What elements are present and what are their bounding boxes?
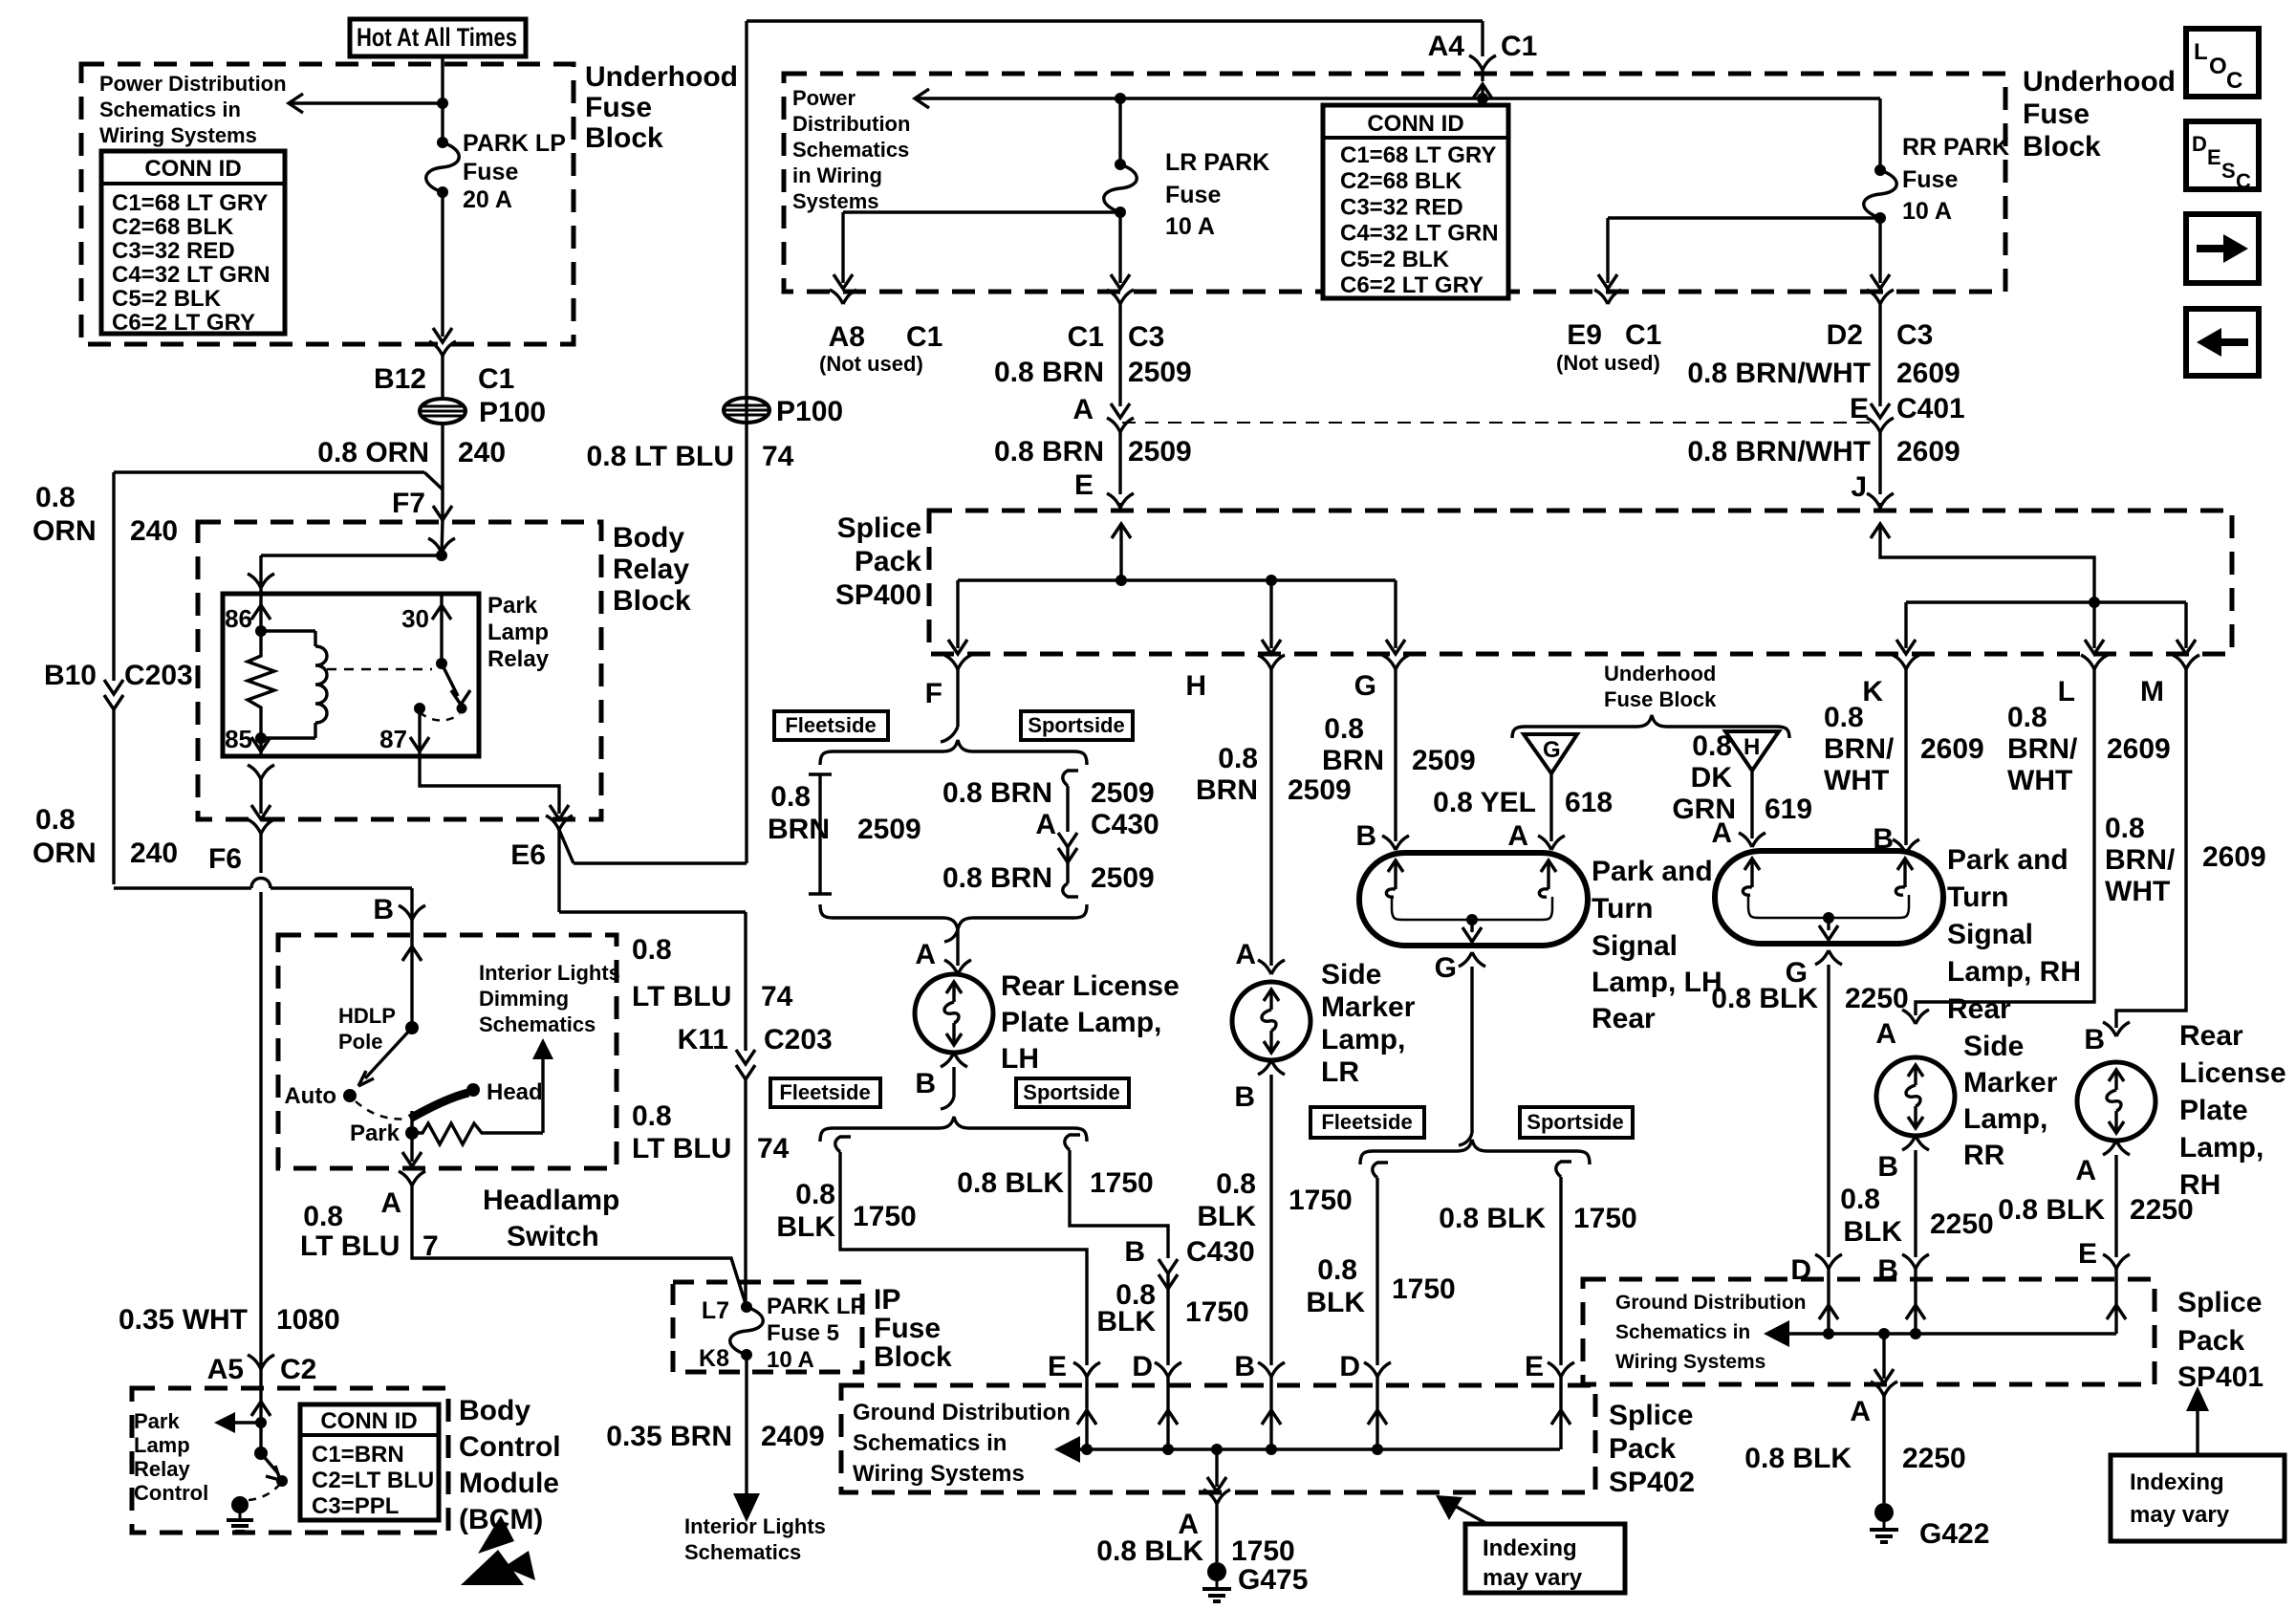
svg-text:Sportside: Sportside [1527, 1110, 1623, 1134]
svg-text:B: B [1124, 1236, 1145, 1268]
connector D into SP402 [1155, 1362, 1168, 1377]
svg-text:2609: 2609 [2107, 733, 2171, 765]
svg-text:G475: G475 [1238, 1564, 1308, 1596]
ground G422 [1874, 1503, 1894, 1522]
svg-text:A: A [1711, 817, 1732, 849]
connector G [1382, 655, 1396, 669]
svg-text:WHT: WHT [2007, 765, 2072, 796]
svg-text:Park and: Park and [1947, 844, 2069, 876]
svg-text:RR: RR [1963, 1140, 2005, 1171]
svg-text:C6=2 LT GRY: C6=2 LT GRY [112, 310, 255, 336]
svg-text:M: M [2140, 676, 2164, 707]
svg-text:P100: P100 [479, 397, 546, 428]
svg-text:0.8: 0.8 [1216, 1168, 1256, 1200]
svg-text:E: E [2207, 145, 2221, 169]
svg-text:2509: 2509 [857, 814, 921, 845]
sportside power wire with C430 [1063, 771, 1078, 786]
svg-text:Auto: Auto [284, 1083, 336, 1109]
svg-text:Distribution: Distribution [792, 112, 910, 136]
connector B into SP401 [1902, 1254, 1916, 1269]
svg-text:Ground Distribution: Ground Distribution [1615, 1292, 1806, 1314]
svg-text:C4=32 LT GRN: C4=32 LT GRN [112, 262, 271, 288]
switch position Park [405, 1126, 419, 1140]
svg-text:0.8 BRN/WHT: 0.8 BRN/WHT [1687, 436, 1871, 468]
svg-text:0.8 BLK: 0.8 BLK [1744, 1443, 1852, 1474]
svg-text:2250: 2250 [1845, 983, 1909, 1014]
svg-text:A4: A4 [1428, 31, 1465, 62]
svg-text:B: B [373, 894, 394, 925]
switch dashed travel arc [356, 1101, 408, 1119]
fuse block output triangle G [1524, 734, 1577, 773]
splice pack SP401 dashed box [1583, 1279, 2155, 1384]
svg-text:0.8: 0.8 [1824, 702, 1864, 733]
svg-text:Fuse: Fuse [585, 92, 652, 123]
svg-text:Power Distribution: Power Distribution [99, 72, 287, 96]
connector B12 C1 [429, 341, 443, 356]
svg-text:0.8 BLK: 0.8 BLK [957, 1167, 1064, 1199]
svg-text:240: 240 [458, 437, 506, 468]
svg-text:LH: LH [1001, 1043, 1039, 1075]
svg-text:E9: E9 [1567, 319, 1602, 351]
wire fuse to connector B12/C1 [441, 192, 444, 337]
headlamp switch feed wire [402, 946, 422, 961]
svg-text:Relay: Relay [487, 646, 550, 672]
svg-text:Pole: Pole [338, 1030, 382, 1054]
lamp Rear License Plate Lamp LH [915, 974, 993, 1053]
svg-text:618: 618 [1565, 787, 1613, 818]
svg-text:H: H [1185, 670, 1206, 702]
connector C401 dashed separator [1122, 422, 1875, 424]
fuse LR PARK 10A [1118, 98, 1121, 164]
svg-text:B: B [1877, 1254, 1898, 1286]
svg-text:0.8 BRN: 0.8 BRN [942, 862, 1052, 894]
lamp Park and Turn Signal Lamp RH Rear (oval) [1715, 851, 1943, 944]
svg-text:Park: Park [350, 1120, 401, 1146]
svg-text:0.8: 0.8 [1840, 1184, 1880, 1215]
svg-text:Body: Body [613, 522, 684, 554]
svg-text:Lamp,: Lamp, [1963, 1103, 2047, 1135]
svg-text:C2=68 BLK: C2=68 BLK [1340, 168, 1462, 194]
connector A headlamp switch output [399, 1171, 412, 1186]
SP402 drop to G475 [1211, 1444, 1223, 1455]
svg-text:Module: Module [459, 1468, 559, 1499]
switch thick arm to Head [410, 1093, 468, 1119]
svg-text:10 A: 10 A [1902, 198, 1952, 225]
svg-text:Indexing: Indexing [1483, 1535, 1577, 1561]
wire from Hot At All Times into fuse block [441, 56, 444, 142]
connector B below side marker LR [1258, 1060, 1271, 1075]
svg-text:A: A [2075, 1155, 2096, 1186]
nav box next arrow [2186, 214, 2259, 283]
relay pin 86 [259, 594, 262, 631]
fuse block output triangle H [1725, 731, 1779, 771]
svg-text:A: A [1035, 809, 1056, 840]
svg-text:E: E [1048, 1351, 1067, 1382]
svg-text:2509: 2509 [1288, 774, 1352, 806]
label box Sportside (LH signal mux) [1520, 1107, 1633, 1138]
svg-text:Sportside: Sportside [1023, 1080, 1119, 1104]
nav box DESC [2186, 121, 2259, 189]
svg-text:0.8 BLK: 0.8 BLK [1711, 983, 1818, 1014]
svg-text:1750: 1750 [1289, 1185, 1353, 1216]
svg-text:BRN/: BRN/ [2105, 844, 2176, 876]
wire branch to E9 not used [1608, 216, 1880, 219]
svg-text:74: 74 [762, 441, 794, 472]
svg-text:20 A: 20 A [463, 186, 512, 213]
svg-text:Schematics: Schematics [792, 138, 909, 162]
svg-text:1750: 1750 [1185, 1296, 1249, 1328]
svg-text:Marker: Marker [1963, 1067, 2058, 1099]
connector P100 (left) [420, 399, 466, 424]
connector K [1893, 655, 1906, 669]
svg-text:F7: F7 [392, 488, 425, 519]
svg-text:Fuse: Fuse [1902, 166, 1958, 193]
svg-text:1750: 1750 [853, 1201, 917, 1232]
wire RR park lamp feed D2/C3 [1867, 290, 1880, 304]
SP402 entries [1077, 1410, 1096, 1425]
svg-text:O: O [2209, 54, 2227, 79]
connector B rear license RH [2103, 1022, 2116, 1036]
connector A to G422 [1871, 1382, 1884, 1396]
fleetside power wire 0.8 BRN 2509 [809, 772, 832, 775]
svg-text:A: A [1850, 1396, 1871, 1427]
svg-text:Wiring Systems: Wiring Systems [1615, 1351, 1765, 1373]
connector B below side marker RR [1902, 1136, 1916, 1150]
indexing may vary (left) [1465, 1524, 1625, 1593]
svg-text:0.8: 0.8 [632, 1100, 672, 1132]
svg-text:BLK: BLK [1096, 1306, 1156, 1338]
wire 74 to IP fuse L7 [744, 1099, 747, 1307]
splice pack SP402 dashed box [841, 1385, 1595, 1492]
svg-text:Fuse Block: Fuse Block [1604, 687, 1717, 711]
relay pin 87 and contact [414, 703, 425, 714]
svg-text:2609: 2609 [1896, 358, 1960, 389]
svg-text:Headlamp: Headlamp [483, 1185, 619, 1216]
svg-text:0.8: 0.8 [2105, 813, 2145, 844]
svg-text:C3=32 RED: C3=32 RED [1340, 194, 1463, 220]
relay pin 85 [259, 738, 262, 756]
connector A below rear license RH [2103, 1141, 2116, 1155]
svg-text:D: D [1790, 1254, 1811, 1286]
svg-text:Splice: Splice [2177, 1287, 2262, 1318]
svg-text:0.8 BRN: 0.8 BRN [994, 436, 1104, 468]
svg-text:WHT: WHT [2105, 876, 2170, 907]
relay coil [261, 629, 315, 632]
svg-text:C3: C3 [1896, 319, 1933, 351]
connector A4 C1 [1481, 21, 1484, 56]
svg-text:Body: Body [459, 1395, 531, 1426]
svg-text:C2: C2 [280, 1354, 316, 1385]
svg-text:B: B [1234, 1351, 1255, 1382]
svg-text:0.8: 0.8 [770, 781, 811, 813]
power feed label Hot At All Times [350, 19, 526, 56]
nav box LOC [2186, 29, 2259, 97]
svg-text:K11: K11 [678, 1024, 728, 1055]
svg-text:2609: 2609 [2202, 841, 2266, 873]
svg-text:(Not used): (Not used) [819, 352, 923, 376]
svg-text:0.8 BLK: 0.8 BLK [1998, 1194, 2105, 1226]
svg-text:Rear: Rear [1592, 1003, 1656, 1034]
svg-text:E6: E6 [510, 839, 546, 871]
svg-text:Head: Head [487, 1079, 543, 1105]
svg-text:10 A: 10 A [1165, 213, 1215, 240]
fleetside ground wire 0.8 BLK 1750 to D [1373, 1163, 1388, 1178]
label box Fleetside (ground mux) [770, 1078, 880, 1107]
svg-text:L: L [2194, 39, 2208, 65]
connector F [944, 655, 958, 669]
CONN ID table (middle) [1323, 105, 1508, 298]
svg-text:Lamp: Lamp [134, 1433, 190, 1457]
svg-text:C401: C401 [1896, 393, 1965, 424]
svg-text:Wiring Systems: Wiring Systems [99, 123, 257, 147]
svg-text:Power: Power [792, 86, 856, 110]
sportside ground wire 0.8 BLK 1750 via C430 [1065, 1135, 1080, 1150]
svg-text:Sportside: Sportside [1028, 713, 1124, 737]
svg-text:0.8 BLK: 0.8 BLK [1096, 1535, 1203, 1567]
svg-text:B: B [2084, 1024, 2105, 1055]
svg-text:in Wiring: in Wiring [792, 163, 882, 187]
svg-text:ORN: ORN [32, 838, 97, 869]
svg-text:2250: 2250 [1902, 1443, 1966, 1474]
mux brace (LH signal ground) [1459, 1133, 1472, 1145]
connector E into SP402 [1073, 1362, 1087, 1377]
wire 2509 E segment [1107, 418, 1120, 432]
wire IP fuse output to interior lights [745, 1355, 747, 1493]
svg-text:C430: C430 [1186, 1236, 1255, 1268]
svg-text:C6=2 LT GRY: C6=2 LT GRY [1340, 272, 1484, 298]
svg-text:BRN/: BRN/ [1824, 733, 1895, 765]
svg-text:BRN/: BRN/ [2007, 733, 2078, 765]
svg-text:BLK: BLK [1197, 1201, 1256, 1232]
svg-text:Park: Park [487, 593, 538, 619]
svg-text:C1: C1 [478, 363, 514, 395]
svg-text:2409: 2409 [761, 1421, 825, 1452]
lamp Side Marker Lamp LR [1232, 982, 1310, 1060]
svg-text:B12: B12 [374, 363, 426, 395]
indexing may vary (right) [2111, 1455, 2285, 1541]
svg-text:Fleetside: Fleetside [1321, 1110, 1412, 1134]
SP400 left bus [958, 578, 1396, 581]
svg-text:CONN ID: CONN ID [144, 156, 241, 182]
wire mux output to lamp A [944, 929, 958, 942]
sportside ground wire 0.8 BLK 1750 to E [1556, 1162, 1571, 1177]
svg-text:C1: C1 [906, 321, 942, 353]
svg-text:A: A [1235, 939, 1256, 970]
svg-text:Lamp, LH: Lamp, LH [1592, 967, 1722, 998]
connector G below RH oval [1815, 950, 1829, 965]
svg-text:Relay: Relay [134, 1457, 190, 1481]
svg-text:Rear License: Rear License [1001, 970, 1180, 1002]
svg-text:C4=32 LT GRN: C4=32 LT GRN [1340, 221, 1499, 247]
fleetside ground wire 0.8 BLK 1750 [835, 1137, 851, 1152]
svg-text:CONN ID: CONN ID [320, 1408, 417, 1434]
svg-text:0.8 ORN: 0.8 ORN [317, 437, 429, 468]
svg-text:B: B [915, 1068, 936, 1099]
lamp Park and Turn Signal Lamp LH Rear (oval) [1359, 853, 1588, 946]
svg-text:B: B [1355, 820, 1376, 852]
splice pack SP400 dashed box [929, 511, 2232, 654]
svg-text:J: J [1851, 471, 1867, 503]
connector M [2173, 655, 2186, 669]
svg-text:SP401: SP401 [2177, 1361, 2264, 1393]
svg-text:A: A [380, 1187, 401, 1219]
svg-text:D2: D2 [1827, 319, 1863, 351]
svg-text:Underhood: Underhood [1604, 662, 1716, 685]
svg-text:BRN: BRN [1196, 774, 1258, 806]
svg-text:Block: Block [2023, 131, 2101, 163]
arrow to power distribution schematics [289, 101, 443, 104]
svg-text:619: 619 [1765, 794, 1812, 825]
connector E9 C1 not used [1594, 290, 1608, 304]
svg-text:0.8: 0.8 [1692, 730, 1732, 762]
svg-text:2509: 2509 [1128, 357, 1192, 388]
svg-text:P100: P100 [776, 396, 843, 427]
svg-text:Indexing: Indexing [2130, 1469, 2224, 1495]
svg-text:Splice: Splice [1609, 1400, 1693, 1431]
svg-text:Interior Lights: Interior Lights [684, 1514, 826, 1538]
svg-text:0.8 LT BLU: 0.8 LT BLU [587, 441, 734, 472]
svg-text:Turn: Turn [1592, 893, 1653, 925]
SP401 drop to G422 [1878, 1328, 1890, 1339]
wire K down to RH oval B [1904, 669, 1907, 845]
svg-text:BRN: BRN [1322, 745, 1384, 776]
connector H [1258, 655, 1271, 669]
wire label 0.8 ORN 240 [441, 424, 444, 521]
svg-text:L7: L7 [702, 1297, 729, 1324]
svg-text:2250: 2250 [1930, 1208, 1994, 1240]
connector F6 [248, 819, 261, 834]
svg-text:240: 240 [130, 515, 178, 547]
svg-text:Block: Block [874, 1341, 952, 1373]
svg-text:0.8: 0.8 [2007, 702, 2047, 733]
svg-text:may vary: may vary [2130, 1502, 2230, 1528]
lamp Side Marker Lamp RR [1876, 1057, 1955, 1136]
ESD sensitive device symbol [478, 1515, 514, 1554]
connector A5 C2 [248, 1355, 261, 1369]
label box Fleetside (LH signal mux) [1310, 1107, 1424, 1138]
svg-text:G: G [1435, 952, 1457, 984]
svg-text:Plate Lamp,: Plate Lamp, [1001, 1007, 1161, 1038]
svg-text:Schematics: Schematics [684, 1540, 801, 1564]
wire relay feed split [428, 538, 442, 553]
svg-text:L: L [2058, 676, 2075, 707]
svg-text:Marker: Marker [1321, 991, 1416, 1023]
body control module dashed box [132, 1388, 448, 1533]
svg-text:Lamp,: Lamp, [1321, 1024, 1405, 1055]
svg-text:(Not used): (Not used) [1556, 351, 1660, 375]
svg-text:C3=32 RED: C3=32 RED [112, 238, 235, 264]
svg-text:0.8: 0.8 [35, 482, 76, 513]
svg-text:K: K [1862, 676, 1883, 707]
svg-text:DK: DK [1691, 762, 1733, 794]
svg-text:Interior Lights: Interior Lights [479, 961, 620, 985]
svg-text:LT BLU: LT BLU [632, 981, 731, 1012]
svg-text:1750: 1750 [1231, 1535, 1295, 1567]
power distribution arrow (middle) [915, 97, 1880, 99]
fuse RR PARK 10A [1878, 98, 1881, 170]
svg-text:C2=68 BLK: C2=68 BLK [112, 214, 234, 240]
svg-text:E: E [1525, 1351, 1544, 1382]
svg-text:Fuse 5: Fuse 5 [767, 1320, 839, 1346]
relay switch arm [442, 664, 458, 696]
svg-text:Fuse: Fuse [874, 1313, 941, 1344]
fuse PARK LP 20 A [437, 137, 448, 148]
svg-text:Switch: Switch [507, 1221, 599, 1252]
svg-text:RR PARK: RR PARK [1902, 134, 2009, 161]
svg-text:Park and: Park and [1592, 856, 1713, 887]
svg-text:C1: C1 [1625, 319, 1661, 351]
svg-text:Side: Side [1321, 959, 1381, 990]
svg-text:A: A [1507, 820, 1528, 852]
svg-text:PARK LP: PARK LP [463, 130, 566, 157]
svg-text:HDLP: HDLP [338, 1004, 396, 1028]
svg-text:F6: F6 [208, 843, 242, 875]
svg-text:Signal: Signal [1592, 930, 1678, 962]
svg-text:LT BLU: LT BLU [632, 1133, 731, 1164]
wire left branch down [112, 472, 115, 681]
svg-text:0.8: 0.8 [795, 1179, 835, 1210]
svg-text:0.8: 0.8 [1317, 1254, 1357, 1286]
svg-text:ORN: ORN [32, 515, 97, 547]
svg-text:Splice: Splice [837, 512, 921, 544]
svg-text:Hot At All Times: Hot At All Times [357, 23, 517, 52]
connector B below lamp [941, 1053, 954, 1067]
svg-text:0.35 WHT: 0.35 WHT [119, 1304, 248, 1336]
label box Fleetside (power mux) [774, 711, 888, 740]
svg-text:H: H [1744, 734, 1760, 760]
svg-text:C5=2 BLK: C5=2 BLK [1340, 247, 1450, 272]
svg-text:Lamp: Lamp [487, 620, 549, 645]
svg-text:2509: 2509 [1412, 745, 1476, 776]
svg-text:0.8: 0.8 [35, 804, 76, 836]
svg-text:BRN: BRN [768, 814, 830, 845]
connector L [2081, 655, 2094, 669]
wire E6 jog to 74 wire [574, 861, 747, 864]
svg-text:LR: LR [1321, 1056, 1359, 1088]
SP401 ground bus [1786, 1332, 2116, 1335]
relay Park Lamp Relay box [223, 594, 479, 756]
BCM ground [231, 1496, 249, 1513]
svg-text:85: 85 [225, 725, 252, 753]
wire LR park lamp feed C1/C3 [1107, 290, 1120, 304]
svg-text:Side: Side [1963, 1031, 2024, 1062]
svg-text:D: D [1132, 1351, 1153, 1382]
svg-text:G422: G422 [1919, 1518, 1989, 1550]
svg-text:LT BLU: LT BLU [300, 1230, 400, 1262]
svg-text:Pack: Pack [855, 546, 921, 577]
svg-text:240: 240 [130, 838, 178, 869]
svg-text:0.8 BRN/WHT: 0.8 BRN/WHT [1687, 358, 1871, 389]
svg-text:BLK: BLK [1306, 1287, 1365, 1318]
wire branch to A8 not used [843, 210, 1120, 213]
svg-text:B: B [1234, 1081, 1255, 1113]
svg-text:Lamp, RH: Lamp, RH [1947, 956, 2081, 988]
switch resistor to interior lights dimming [412, 1123, 543, 1144]
svg-text:Pack: Pack [2177, 1325, 2244, 1357]
svg-text:2250: 2250 [2130, 1194, 2194, 1226]
svg-text:BLK: BLK [1843, 1216, 1902, 1248]
svg-text:2609: 2609 [1920, 733, 1984, 765]
underhood fuse block (left) dashed box [81, 64, 574, 344]
svg-text:Wiring Systems: Wiring Systems [853, 1461, 1025, 1487]
svg-text:C1=68 LT GRY: C1=68 LT GRY [112, 190, 268, 216]
fuse PARK LP Fuse 5 10A [741, 1301, 752, 1313]
nav box previous arrow [2186, 309, 2259, 376]
svg-text:87: 87 [379, 725, 407, 753]
svg-text:C2=LT BLU: C2=LT BLU [312, 1468, 434, 1493]
svg-text:CONN ID: CONN ID [1367, 111, 1463, 137]
svg-text:Rear: Rear [2179, 1020, 2243, 1052]
